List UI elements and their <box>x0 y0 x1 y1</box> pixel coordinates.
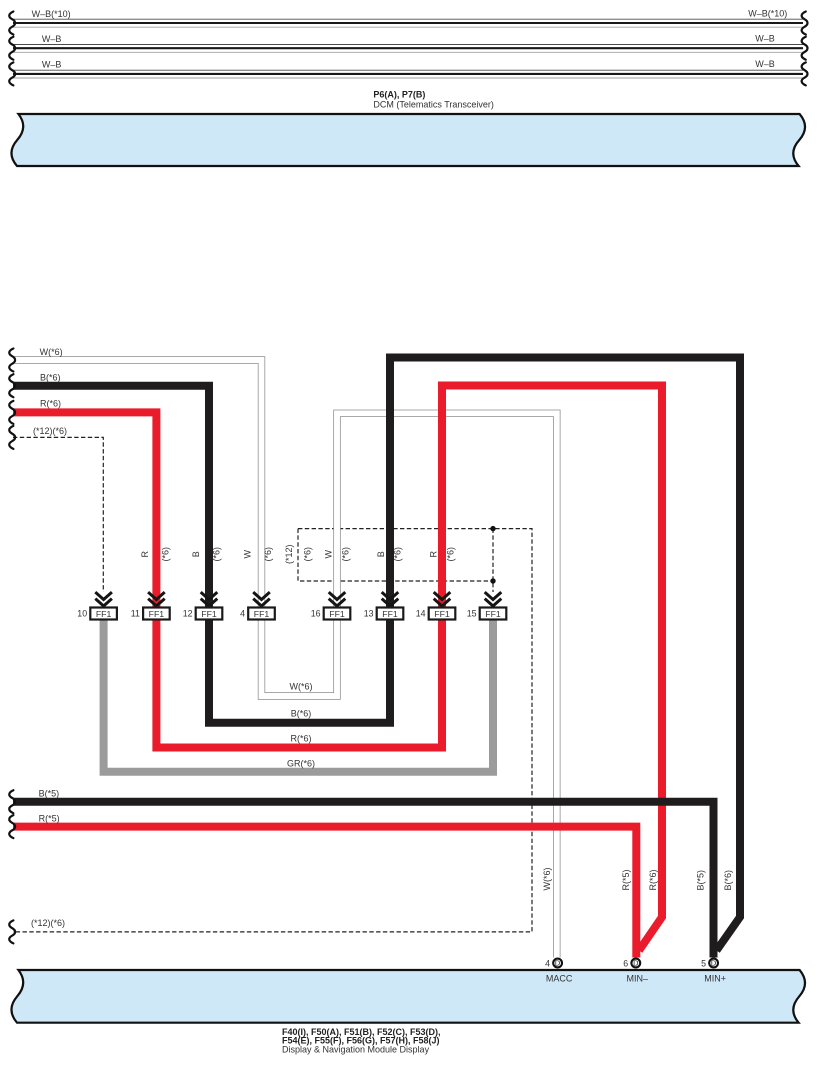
svg-text:(*6): (*6) <box>263 547 273 562</box>
svg-text:(*6): (*6) <box>212 547 222 562</box>
svg-text:D: D <box>633 959 638 968</box>
svg-text:W–B: W–B <box>42 34 62 44</box>
svg-text:5: 5 <box>701 958 706 968</box>
svg-text:10: 10 <box>77 609 87 619</box>
svg-text:FF1: FF1 <box>485 609 501 619</box>
svg-text:MACC: MACC <box>546 974 573 984</box>
svg-text:W–B(*10): W–B(*10) <box>32 9 71 19</box>
svg-text:D: D <box>555 959 560 968</box>
svg-text:6: 6 <box>623 958 628 968</box>
svg-text:(*6): (*6) <box>302 547 312 562</box>
svg-text:W–B: W–B <box>42 60 62 70</box>
svg-text:FF1: FF1 <box>96 609 112 619</box>
svg-text:B(*6): B(*6) <box>723 870 733 891</box>
svg-text:(*12)(*6): (*12)(*6) <box>31 918 65 928</box>
svg-text:W: W <box>324 550 334 559</box>
svg-text:(*12): (*12) <box>284 545 294 565</box>
svg-text:B(*5): B(*5) <box>39 789 60 799</box>
svg-text:FF1: FF1 <box>201 609 217 619</box>
svg-text:11: 11 <box>131 609 140 619</box>
svg-text:4: 4 <box>545 958 550 968</box>
svg-text:12: 12 <box>183 609 193 619</box>
svg-text:(*6): (*6) <box>161 547 171 562</box>
svg-text:B(*6): B(*6) <box>40 373 61 383</box>
svg-text:4: 4 <box>240 609 245 619</box>
svg-text:MIN+: MIN+ <box>704 974 726 984</box>
svg-text:FF1: FF1 <box>254 609 270 619</box>
svg-text:P6(A), P7(B): P6(A), P7(B) <box>373 90 425 100</box>
svg-text:B(*5): B(*5) <box>696 870 706 891</box>
svg-text:FF1: FF1 <box>434 609 450 619</box>
svg-text:(*6): (*6) <box>446 547 456 562</box>
svg-text:(*6): (*6) <box>393 547 403 562</box>
svg-text:D: D <box>711 959 716 968</box>
svg-text:R(*6): R(*6) <box>290 734 311 744</box>
svg-text:FF1: FF1 <box>329 609 345 619</box>
svg-text:B: B <box>191 551 201 557</box>
svg-text:R(*6): R(*6) <box>648 869 658 890</box>
svg-text:W: W <box>243 550 253 559</box>
svg-text:R: R <box>429 551 439 558</box>
svg-text:GR(*6): GR(*6) <box>287 759 315 769</box>
svg-text:FF1: FF1 <box>382 609 398 619</box>
svg-text:W–B: W–B <box>755 59 775 69</box>
svg-text:W(*6): W(*6) <box>40 347 63 357</box>
svg-text:16: 16 <box>311 609 321 619</box>
svg-text:R(*5): R(*5) <box>39 814 60 824</box>
svg-text:15: 15 <box>467 609 477 619</box>
svg-text:W–B: W–B <box>755 34 775 44</box>
svg-text:(*6): (*6) <box>340 547 350 562</box>
svg-text:W(*6): W(*6) <box>290 682 313 692</box>
svg-text:MIN–: MIN– <box>627 974 649 984</box>
svg-text:B: B <box>376 551 386 557</box>
svg-text:W(*6): W(*6) <box>542 868 552 891</box>
svg-text:R: R <box>140 551 150 558</box>
svg-text:14: 14 <box>416 609 426 619</box>
svg-text:B(*6): B(*6) <box>291 709 312 719</box>
svg-text:Display & Navigation Module Di: Display & Navigation Module Display <box>282 1045 430 1055</box>
svg-text:R(*5): R(*5) <box>621 869 631 890</box>
svg-text:R(*6): R(*6) <box>40 399 61 409</box>
svg-text:(*12)(*6): (*12)(*6) <box>33 426 67 436</box>
svg-text:W–B(*10): W–B(*10) <box>748 9 787 19</box>
svg-text:FF1: FF1 <box>149 609 165 619</box>
svg-text:DCM (Telematics Transceiver): DCM (Telematics Transceiver) <box>373 100 494 110</box>
svg-text:13: 13 <box>364 609 374 619</box>
